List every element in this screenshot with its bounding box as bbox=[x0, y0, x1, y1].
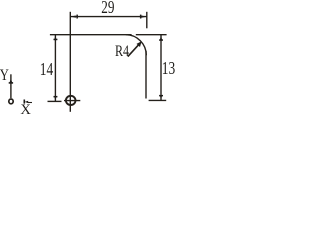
part top line (also ext lines for 14 and part outline) bbox=[50, 34, 132, 36]
svg-text:X: X bbox=[20, 102, 31, 118]
Y axis arrowhead bbox=[10, 79, 13, 83]
13 bottom extension line bbox=[149, 99, 167, 101]
13 top extension line bbox=[136, 34, 167, 36]
origin target circle bbox=[66, 96, 76, 105]
part left edge + 29 left extension + origin crosshair vertical bbox=[69, 12, 71, 112]
29 left arrowhead bbox=[70, 16, 75, 18]
13 bottom arrowhead bbox=[160, 95, 162, 100]
origin crosshair horizontal bbox=[64, 100, 80, 102]
corner arc R4 bbox=[126, 35, 147, 56]
X axis arrowhead bbox=[25, 101, 29, 103]
dimension line 13 bbox=[160, 35, 162, 101]
svg-text:Y: Y bbox=[0, 66, 9, 84]
svg-text:29: 29 bbox=[101, 0, 114, 18]
14 bottom arrowhead bbox=[54, 96, 56, 101]
X axis tail line bbox=[28, 102, 32, 104]
svg-text:14: 14 bbox=[40, 60, 53, 79]
13 top arrowhead bbox=[160, 35, 162, 40]
R4 leader line bbox=[128, 45, 139, 57]
svg-text:13: 13 bbox=[162, 59, 175, 78]
14 bottom extension line bbox=[48, 100, 62, 102]
29 right extension line bbox=[146, 12, 148, 29]
14 top arrowhead bbox=[54, 35, 56, 40]
svg-text:R4: R4 bbox=[115, 43, 129, 61]
dimension line 29 bbox=[70, 16, 146, 18]
Y axis line bbox=[10, 74, 12, 98]
part right edge bbox=[145, 51, 147, 99]
Y axis origin circle bbox=[9, 99, 13, 104]
29 right arrowhead bbox=[141, 16, 146, 18]
R4 leader arrowhead bbox=[137, 41, 142, 47]
dimension line 14 bbox=[54, 35, 56, 102]
